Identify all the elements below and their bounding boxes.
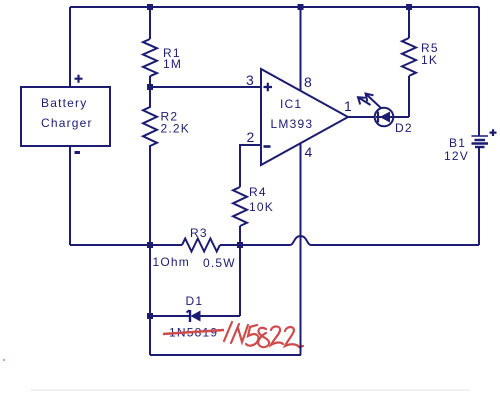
svg-text:R4: R4 bbox=[249, 185, 267, 199]
pin 8 number bbox=[304, 74, 313, 90]
Battery Charger box bbox=[21, 87, 110, 146]
faint scan artifact line bottom bbox=[30, 389, 470, 391]
svg-text:IC1: IC1 bbox=[280, 97, 302, 111]
pin 1 number bbox=[344, 98, 353, 114]
resistor R3 bbox=[153, 226, 236, 270]
node B junction dot (240,245) bbox=[237, 242, 243, 248]
svg-text:1: 1 bbox=[344, 98, 353, 114]
wire R1 bottom lead bbox=[149, 76, 151, 87]
wire right vertical lower (bottom rail to battery) bbox=[478, 147, 480, 245]
wire op-amp output pin 1 bbox=[348, 116, 375, 118]
pin 2 number bbox=[247, 129, 256, 145]
label 1N5819 bbox=[169, 326, 218, 340]
red strikethrough on 1N5819 bbox=[163, 330, 224, 334]
svg-text:12V: 12V bbox=[444, 149, 469, 163]
svg-text:2: 2 bbox=[247, 129, 256, 145]
svg-text:1Ohm: 1Ohm bbox=[153, 255, 190, 269]
svg-text:D2: D2 bbox=[395, 121, 413, 135]
svg-text:3: 3 bbox=[246, 72, 255, 88]
resistor R4 bbox=[233, 185, 274, 226]
svg-text:4: 4 bbox=[305, 144, 314, 160]
pin 4 number bbox=[305, 144, 314, 160]
wire pin 4 down bbox=[300, 143, 302, 355]
resistor R1 bbox=[143, 39, 182, 76]
wire right vertical upper (top rail to battery +) bbox=[478, 7, 480, 136]
charger + terminal label bbox=[75, 75, 83, 83]
svg-text:B1: B1 bbox=[449, 136, 466, 150]
pin 3 number bbox=[246, 72, 255, 88]
svg-text:R3: R3 bbox=[190, 226, 208, 240]
node C junction dot (150,87) bbox=[147, 84, 153, 90]
node A junction dot (150,245) bbox=[147, 242, 153, 248]
svg-text:10K: 10K bbox=[249, 200, 274, 214]
wire pin 8 to top rail bbox=[300, 7, 302, 91]
wire R1 top lead bbox=[149, 7, 151, 39]
node junction dot top at R1 (150,7) bbox=[147, 4, 153, 10]
svg-text:LM393: LM393 bbox=[271, 117, 314, 131]
node junction dot top at pin8 (300.5,7) bbox=[298, 4, 304, 10]
wire bottom rail middle (R3 to hop) bbox=[220, 244, 290, 246]
LED D2 bbox=[375, 108, 413, 135]
svg-text:1K: 1K bbox=[421, 53, 438, 67]
red handwritten 1N5822 bbox=[224, 322, 303, 347]
resistor R2 bbox=[143, 87, 190, 245]
charger - terminal label bbox=[75, 151, 81, 154]
faint red speck left margin bbox=[3, 359, 5, 361]
svg-text:D1: D1 bbox=[186, 294, 204, 308]
wire top rail bbox=[70, 6, 479, 8]
resistor R5 bbox=[402, 38, 439, 76]
diode D1 bbox=[150, 294, 240, 322]
battery B1 bbox=[444, 129, 497, 163]
wire D1 right lead up to node B bbox=[239, 245, 241, 316]
wire R5 top lead bbox=[408, 7, 410, 38]
node D junction dot (150,316) bbox=[147, 313, 153, 319]
svg-text:Charger: Charger bbox=[41, 116, 93, 130]
wire left vertical lower (charger - to bottom rail) bbox=[69, 146, 71, 245]
wire left vertical upper (top rail to charger +) bbox=[69, 7, 71, 87]
svg-text:1M: 1M bbox=[163, 57, 182, 71]
svg-text:8: 8 bbox=[304, 74, 313, 90]
LED arrow short bbox=[358, 97, 371, 105]
node junction dot top at R5 (409,7) bbox=[406, 4, 412, 10]
wire hop over pin4 line bbox=[290, 236, 311, 245]
wire bottom rail left (charger to node A) bbox=[70, 244, 182, 246]
wire bottom rail right (hop to battery minus) bbox=[311, 244, 479, 246]
wire R4 bottom lead to node B bbox=[239, 226, 241, 245]
wire LED to R5 branch bbox=[394, 116, 410, 118]
wire R5 bottom lead bbox=[408, 76, 410, 117]
wire left lower vertical (node A to D1 node to bottom wire) bbox=[149, 245, 151, 355]
LED arrow long bbox=[366, 94, 382, 109]
svg-text:Battery: Battery bbox=[41, 96, 87, 110]
wire pin 3 input bbox=[150, 86, 261, 88]
svg-text:2.2K: 2.2K bbox=[161, 122, 191, 136]
wire pin 2 input bbox=[240, 145, 261, 187]
op-amp U1 triangle bbox=[261, 69, 348, 165]
svg-text:0.5W: 0.5W bbox=[203, 256, 236, 270]
wire bottom loop bbox=[150, 354, 301, 356]
